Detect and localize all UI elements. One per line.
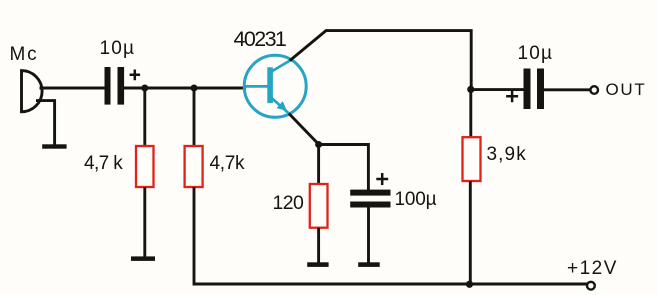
- node junction dot at R2 top: [191, 85, 198, 92]
- resistor R2 4,7k: [185, 146, 203, 187]
- label OUT: [606, 81, 647, 98]
- wire emitter outer: [289, 113, 319, 144]
- value label 10u of C1: [100, 39, 136, 58]
- transistor Q1 base lead: [246, 85, 268, 88]
- wire mic ground lead: [36, 101, 55, 146]
- value label 10u of C2: [518, 44, 554, 63]
- capacitor C3 100u bottom plate: [350, 202, 390, 208]
- wire R4 upper lead: [469, 89, 472, 137]
- wire mic signal lead: [40, 87, 106, 90]
- node OUT terminal circle: [590, 86, 598, 94]
- ground (mic): [42, 144, 66, 148]
- value label 100u of C3: [395, 190, 437, 209]
- microphone Mc: [22, 71, 43, 112]
- value label 4,7k of R2: [210, 154, 245, 173]
- node +12V terminal circle: [587, 282, 595, 290]
- wire C1 to transistor base: [124, 87, 246, 90]
- resistor R3 120: [310, 184, 328, 228]
- wire R3 lower lead: [317, 228, 320, 263]
- capacitor C1 10u left plate: [105, 67, 111, 105]
- wire C2 to OUT terminal: [544, 88, 590, 91]
- wire R1 lower lead: [143, 187, 146, 258]
- transistor Q1 emitter lead inner: [271, 97, 289, 113]
- capacitor C2 10u left plate: [524, 69, 531, 110]
- value label 3,9k of R4: [487, 145, 527, 164]
- transistor Q1 emitter arrowhead: [277, 101, 287, 111]
- wire collector to top rail down to output node: [290, 31, 471, 89]
- part number label 40231 of Q1: [234, 29, 286, 51]
- value label 4,7k of R1: [84, 154, 122, 173]
- transistor Q1 base bar: [267, 67, 273, 103]
- label +12V: [567, 259, 618, 278]
- capacitor C1 10u right plate: [118, 67, 125, 105]
- transistor Q1 collector lead inner: [272, 60, 291, 71]
- node junction dot collector output node: [467, 86, 474, 93]
- label Mc: [10, 45, 39, 64]
- node junction dot at R1 top: [141, 85, 148, 92]
- polarity plus of C1: [130, 70, 141, 81]
- resistor R1 4,7k: [136, 146, 154, 187]
- ground (below R3): [307, 262, 328, 267]
- wire R2 upper lead: [193, 88, 196, 147]
- wire emitter node to C3: [319, 145, 369, 191]
- value label 120 of R3: [273, 194, 304, 214]
- resistor R4 3,9k: [463, 137, 481, 181]
- wire R4 lower lead: [469, 181, 472, 284]
- wire R1 upper lead: [143, 88, 146, 147]
- wire C3 lower lead: [367, 207, 370, 263]
- node junction dot emitter: [315, 141, 322, 148]
- polarity plus of C2: [506, 90, 518, 102]
- capacitor C2 10u right plate: [537, 69, 544, 110]
- ground (below R1): [131, 256, 155, 261]
- node junction dot on supply rail: [466, 281, 473, 288]
- wire output node to C2: [471, 88, 524, 91]
- ground (below C3): [358, 262, 380, 267]
- wire R3 upper lead: [317, 145, 320, 185]
- capacitor C3 100u top plate: [350, 190, 390, 196]
- polarity plus of C3: [376, 173, 388, 185]
- transistor Q1 40231 circle: [244, 55, 306, 117]
- wire R2 lower lead and bottom supply rail: [194, 187, 588, 284]
